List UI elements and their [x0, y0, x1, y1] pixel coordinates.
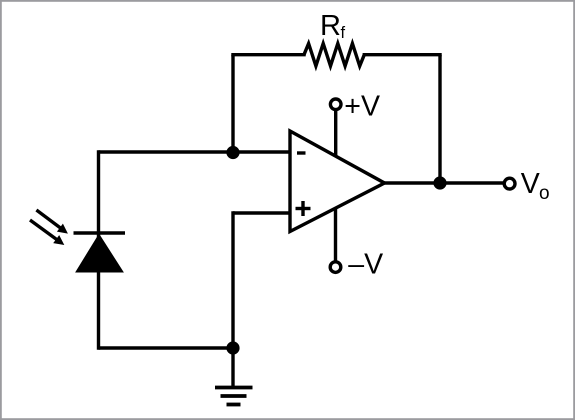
ground symbol [215, 388, 253, 405]
svg-text:R: R [320, 10, 341, 42]
wire: output horizontal [385, 181, 504, 184]
svg-text:f: f [341, 24, 346, 42]
wire: non-inverting vertical to ground node [231, 213, 234, 348]
wire: non-inverting input horizontal [233, 211, 290, 214]
wire: -V supply drop [334, 208, 337, 261]
junction node at output [433, 176, 446, 189]
terminal circle -V [330, 262, 341, 273]
junction node at ground [226, 341, 239, 354]
terminal circle Vo [504, 178, 515, 189]
svg-text:o: o [539, 183, 550, 204]
wire: bottom horizontal [99, 346, 234, 349]
light arrow 1 [36, 210, 68, 234]
wire: right vertical feedback drop [438, 55, 441, 183]
wire: feedback top right segment [364, 53, 440, 56]
op-amp non-inverting (+) mark [296, 201, 311, 216]
wire: feedback top left segment [233, 53, 304, 56]
wire: left vertical (photodiode branch) [97, 152, 100, 348]
wire: ground stem [231, 348, 234, 387]
op-amp U1 triangle [290, 131, 385, 232]
op-amp inverting (-) mark [297, 151, 306, 154]
wire: feedback vertical from junction [231, 55, 234, 152]
photodiode D1 triangle [76, 235, 123, 273]
photodiode D1 cathode bar [74, 231, 126, 234]
resistor R_f zigzag [304, 44, 364, 67]
terminal circle +V [330, 99, 341, 110]
svg-text:–V: –V [348, 249, 383, 281]
wire: inverting input horizontal [99, 150, 291, 153]
wire: +V supply drop [334, 111, 337, 157]
light arrow 2 [30, 220, 64, 245]
svg-text:+V: +V [344, 90, 380, 122]
svg-text:V: V [521, 168, 540, 200]
junction node at inverting input [226, 146, 239, 159]
